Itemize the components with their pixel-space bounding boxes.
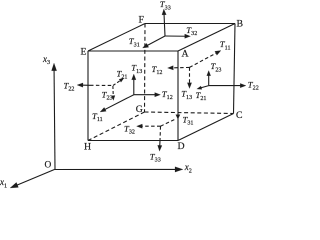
svg-text:C: C (236, 110, 243, 121)
svg-text:G: G (136, 104, 143, 115)
svg-text:H: H (84, 142, 91, 153)
svg-text:A: A (182, 49, 189, 60)
svg-text:O: O (45, 161, 52, 171)
svg-text:D: D (178, 141, 185, 152)
svg-text:E: E (81, 46, 87, 57)
svg-text:B: B (237, 18, 244, 29)
svg-text:F: F (139, 15, 145, 26)
